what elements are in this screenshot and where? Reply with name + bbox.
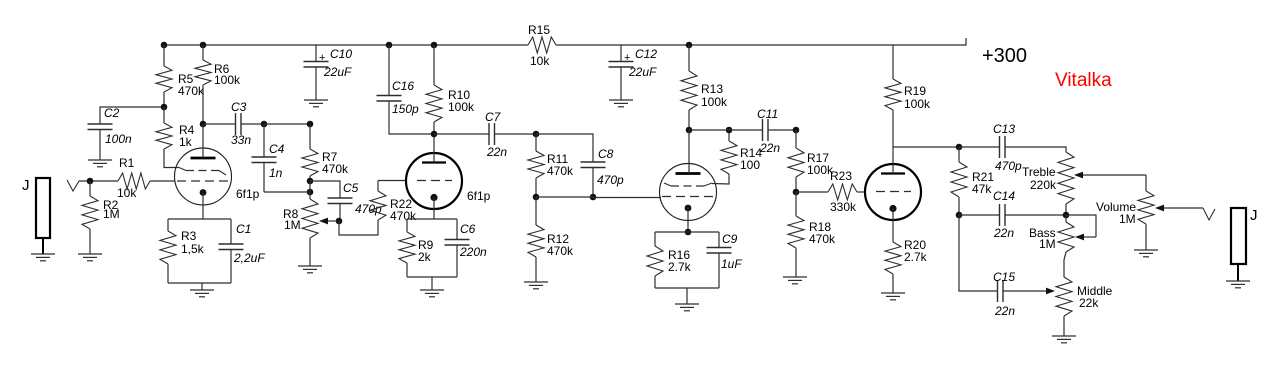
wire cathode net V2 bottom bbox=[407, 276, 457, 278]
svg-text:22k: 22k bbox=[1079, 296, 1099, 310]
tube V4 6f1p (triode) bbox=[865, 164, 921, 220]
wire anode V4 to tone stack bbox=[893, 146, 959, 148]
ground Middle bbox=[1052, 336, 1076, 343]
resistor R7 bbox=[302, 124, 349, 181]
svg-text:470p: 470p bbox=[355, 202, 382, 216]
node rail/R13-C12 bbox=[686, 42, 693, 49]
ground R2 bbox=[78, 254, 102, 261]
capacitor C1 bbox=[219, 219, 266, 283]
wire cathode V1 bbox=[202, 193, 204, 220]
svg-text:6f1p: 6f1p bbox=[236, 187, 260, 201]
capacitor C15 bbox=[959, 215, 1045, 318]
node anode V1 bbox=[200, 121, 207, 128]
svg-text:100k: 100k bbox=[701, 95, 728, 109]
node R5/R4/C2 bbox=[161, 104, 168, 111]
resistor R15 bbox=[528, 23, 556, 68]
capacitor C8 bbox=[536, 134, 624, 197]
node Treble/Bass/C14 bbox=[1063, 212, 1070, 219]
wire cathode V2 bbox=[433, 198, 435, 220]
input source marker V bbox=[67, 180, 79, 191]
svg-text:1M: 1M bbox=[284, 218, 301, 232]
ground R9/C6 bbox=[420, 290, 444, 297]
resistor R13 bbox=[681, 45, 728, 130]
resistor R2 bbox=[82, 181, 120, 254]
capacitor C7 bbox=[434, 110, 536, 159]
wire +300 supply rail (right section) bbox=[556, 38, 966, 45]
wiper arrow Treble bbox=[1074, 172, 1146, 179]
capacitor C13 bbox=[993, 122, 1066, 173]
resistor R23 bbox=[796, 169, 866, 214]
svg-text:Treble: Treble bbox=[1022, 165, 1056, 179]
wire anode V3 bbox=[688, 130, 690, 174]
node rail/R10 bbox=[431, 42, 438, 49]
node anode V2 bbox=[431, 131, 438, 138]
svg-text:+: + bbox=[319, 52, 325, 64]
resistor R19 bbox=[885, 45, 931, 147]
svg-text:Vitalka: Vitalka bbox=[1055, 70, 1112, 91]
svg-text:6f1p: 6f1p bbox=[467, 189, 491, 203]
svg-text:330k: 330k bbox=[830, 200, 857, 214]
svg-text:1,5k: 1,5k bbox=[181, 242, 205, 256]
node anode V3 bbox=[686, 127, 693, 134]
svg-text:1n: 1n bbox=[269, 166, 283, 180]
node R7 bottom bbox=[307, 178, 314, 185]
wire anode V3 to C11 bbox=[689, 129, 762, 131]
capacitor C12 22uF bbox=[609, 45, 658, 100]
capacitor C6 bbox=[445, 219, 488, 277]
resistor R20 bbox=[885, 238, 928, 293]
resistor R3 bbox=[160, 219, 205, 283]
svg-text:J: J bbox=[1250, 207, 1258, 224]
wire wiper node to R22 bbox=[339, 220, 378, 235]
svg-text:150p: 150p bbox=[392, 102, 419, 116]
svg-text:100k: 100k bbox=[904, 97, 931, 111]
wiper arrow Bass bbox=[1066, 215, 1096, 240]
node R11 bottom bbox=[533, 194, 540, 201]
capacitor C9 bbox=[707, 232, 743, 288]
ground Volume bbox=[1134, 250, 1158, 257]
resistor R10 bbox=[426, 45, 475, 134]
resistor R14 bbox=[712, 130, 762, 184]
tube V2 6f1p (triode) bbox=[406, 153, 462, 209]
svg-text:C11: C11 bbox=[757, 107, 778, 121]
node R17/R23/R18 bbox=[793, 189, 800, 196]
wire anode V2 bbox=[433, 134, 435, 163]
svg-text:470k: 470k bbox=[809, 232, 836, 246]
svg-text:22n: 22n bbox=[759, 141, 780, 155]
node R14 top bbox=[726, 127, 733, 134]
svg-text:220k: 220k bbox=[1030, 178, 1057, 192]
svg-text:R13: R13 bbox=[701, 82, 723, 96]
svg-text:470p: 470p bbox=[995, 159, 1022, 173]
resistor R12 bbox=[528, 197, 574, 282]
resistor R5 bbox=[156, 45, 205, 107]
ground R12 bbox=[524, 282, 548, 289]
wire C3 node to R7 bbox=[264, 123, 310, 125]
ground jack input bbox=[31, 254, 55, 261]
svg-text:100k: 100k bbox=[214, 73, 241, 87]
svg-text:10k: 10k bbox=[530, 54, 550, 68]
wire anode V1 bbox=[202, 124, 204, 158]
capacitor C5 bbox=[328, 181, 383, 221]
wire R7 node joint bbox=[309, 181, 311, 192]
svg-text:+: + bbox=[624, 52, 630, 64]
wiper arrow Volume bbox=[1155, 205, 1203, 212]
capacitor C14 bbox=[959, 189, 1066, 240]
svg-text:1M: 1M bbox=[1119, 212, 1136, 226]
svg-text:C5: C5 bbox=[343, 181, 359, 195]
wire input to R1 bbox=[79, 180, 118, 182]
wire treble wiper to volume bbox=[1145, 175, 1147, 191]
wiper arrow R8 bbox=[319, 218, 339, 225]
wire R22 to grid V2 bbox=[378, 180, 407, 182]
svg-text:C12: C12 bbox=[635, 47, 657, 61]
svg-text:22uF: 22uF bbox=[323, 65, 352, 79]
wire cathode net V3 top bbox=[655, 231, 719, 233]
tube V1 6f1p (pentode) bbox=[175, 148, 232, 205]
output marker V bbox=[1203, 208, 1215, 220]
ground R8 bbox=[298, 266, 322, 273]
svg-text:100k: 100k bbox=[448, 100, 475, 114]
ground R3/C1 bbox=[190, 290, 214, 297]
wiper arrow Middle bbox=[1045, 288, 1055, 295]
resistor R16 bbox=[647, 232, 692, 288]
resistor R17 bbox=[788, 130, 834, 192]
capacitor C16 150p bbox=[377, 45, 435, 134]
svg-text:C1: C1 bbox=[236, 222, 251, 236]
svg-text:10k: 10k bbox=[117, 186, 137, 200]
wire +300 supply rail (left section) bbox=[164, 44, 528, 46]
node R21/C14/C15 bbox=[956, 212, 963, 219]
potentiometer Treble 220k bbox=[1022, 152, 1074, 215]
node R7 top bbox=[307, 121, 314, 128]
wire R11 to C8 bottom bbox=[536, 196, 593, 198]
wire to grid V3 bbox=[593, 197, 661, 199]
svg-text:1uF: 1uF bbox=[721, 257, 742, 271]
svg-text:C3: C3 bbox=[231, 100, 247, 114]
svg-text:C13: C13 bbox=[993, 122, 1015, 136]
node R21/C13 bbox=[956, 144, 963, 151]
svg-text:R3: R3 bbox=[181, 229, 197, 243]
svg-text:R23: R23 bbox=[830, 169, 852, 183]
svg-text:22n: 22n bbox=[486, 145, 507, 159]
wire C4 to R8 node bbox=[264, 191, 310, 193]
svg-text:2.7k: 2.7k bbox=[904, 250, 928, 264]
potentiometer Volume 1M bbox=[1096, 191, 1154, 250]
svg-text:C4: C4 bbox=[269, 142, 285, 156]
svg-text:C16: C16 bbox=[392, 79, 414, 93]
tube V3 6f1p (pentode) bbox=[660, 164, 717, 221]
resistor R6 bbox=[195, 45, 241, 124]
svg-text:C6: C6 bbox=[460, 222, 476, 236]
ground R20 bbox=[881, 293, 905, 300]
wire R1 to grid V1 bbox=[150, 180, 175, 182]
resistor R18 bbox=[788, 192, 836, 277]
svg-text:33n: 33n bbox=[231, 133, 251, 147]
wire cathode net V2 top bbox=[407, 218, 457, 220]
wire R7 node to C5 bbox=[310, 181, 340, 198]
svg-text:1M: 1M bbox=[1039, 237, 1056, 251]
node C3/C4 bbox=[261, 121, 268, 128]
svg-text:1M: 1M bbox=[103, 207, 120, 221]
svg-text:J: J bbox=[22, 177, 30, 194]
svg-text:2,2uF: 2,2uF bbox=[233, 251, 265, 265]
wire cathode net V3 bottom bbox=[655, 287, 719, 289]
potentiometer Middle 22k bbox=[1056, 277, 1113, 336]
svg-text:C7: C7 bbox=[485, 110, 502, 124]
svg-text:R19: R19 bbox=[904, 84, 926, 98]
svg-text:+300: +300 bbox=[982, 45, 1027, 67]
resistor R1 bbox=[117, 156, 150, 200]
wire cathode net V1 top bbox=[168, 218, 231, 220]
capacitor C10 22uF bbox=[304, 45, 353, 100]
resistor R22 bbox=[370, 181, 417, 224]
svg-text:470p: 470p bbox=[597, 173, 624, 187]
svg-text:220n: 220n bbox=[459, 245, 487, 259]
node input bbox=[87, 178, 94, 185]
node cathode V3 bbox=[685, 229, 692, 236]
node C8 bottom bbox=[590, 194, 597, 201]
node C11/R17 bbox=[793, 127, 800, 134]
wire cathode V3 bbox=[687, 208, 689, 232]
wire node to C13 bbox=[959, 146, 999, 148]
svg-text:470k: 470k bbox=[390, 209, 417, 223]
input jack J bbox=[36, 178, 50, 254]
capacitor C2 bbox=[88, 106, 164, 160]
ground R16/C9 bbox=[675, 304, 699, 311]
wire anode V4 bbox=[892, 147, 894, 174]
ground jack output bbox=[1226, 281, 1250, 288]
svg-text:47k: 47k bbox=[972, 182, 992, 196]
svg-text:22n: 22n bbox=[994, 304, 1015, 318]
svg-text:22n: 22n bbox=[993, 226, 1014, 240]
wire cathode V4 bbox=[892, 209, 894, 243]
node C4/R8 bbox=[307, 189, 314, 196]
ground C12 bbox=[609, 100, 633, 107]
svg-text:470k: 470k bbox=[547, 164, 574, 178]
potentiometer Bass 1M bbox=[1029, 215, 1074, 277]
svg-text:C15: C15 bbox=[993, 270, 1015, 284]
svg-text:R15: R15 bbox=[528, 23, 550, 37]
svg-text:22uF: 22uF bbox=[628, 65, 657, 79]
svg-text:100: 100 bbox=[740, 158, 760, 172]
resistor R21 bbox=[951, 147, 994, 215]
potentiometer R8 1M bbox=[283, 192, 318, 266]
node rail/R5 bbox=[161, 42, 168, 49]
resistor R4 bbox=[156, 107, 195, 168]
svg-text:C10: C10 bbox=[330, 47, 352, 61]
node rail/R6 bbox=[200, 42, 207, 49]
wire cathode net V1 bottom bbox=[168, 282, 231, 284]
svg-text:C9: C9 bbox=[722, 232, 738, 246]
svg-text:470k: 470k bbox=[178, 84, 205, 98]
resistor R11 bbox=[528, 134, 574, 197]
svg-text:C14: C14 bbox=[993, 189, 1015, 203]
svg-text:470k: 470k bbox=[547, 244, 574, 258]
svg-text:C2: C2 bbox=[104, 106, 120, 120]
ground R18 bbox=[783, 277, 807, 284]
resistor R9 bbox=[399, 219, 434, 277]
ground C2 bbox=[88, 160, 112, 167]
svg-text:470k: 470k bbox=[322, 162, 349, 176]
ground C10 bbox=[304, 100, 328, 107]
svg-text:2k: 2k bbox=[418, 250, 432, 264]
svg-text:2.7k: 2.7k bbox=[668, 260, 692, 274]
svg-text:R1: R1 bbox=[119, 156, 135, 170]
svg-text:1k: 1k bbox=[179, 135, 193, 149]
output jack J bbox=[1231, 208, 1246, 281]
node C7/R11 bbox=[533, 131, 540, 138]
node R8 wiper/C5/R22 bbox=[336, 218, 343, 225]
capacitor C11 bbox=[757, 107, 796, 155]
capacitor C4 bbox=[252, 124, 285, 192]
capacitor C3 bbox=[203, 100, 264, 147]
node rail/C16 bbox=[386, 42, 393, 49]
svg-text:100n: 100n bbox=[105, 132, 132, 146]
svg-text:C8: C8 bbox=[598, 147, 614, 161]
